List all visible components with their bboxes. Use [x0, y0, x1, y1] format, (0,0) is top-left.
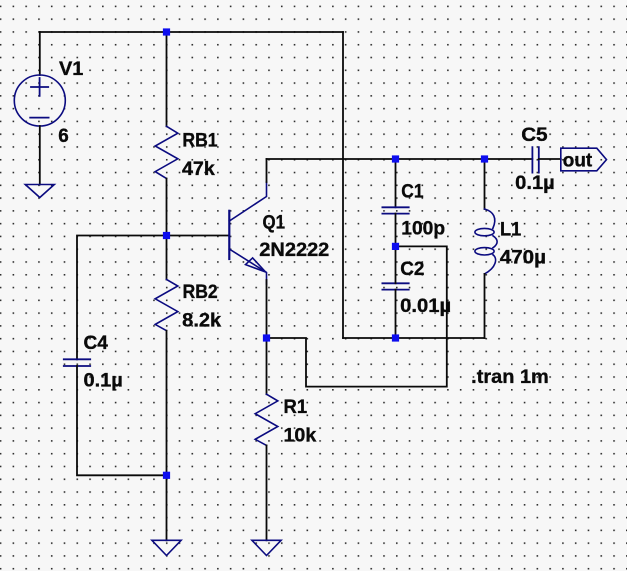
wire base node left to C4	[77, 236, 167, 360]
capacitor C4	[64, 359, 90, 366]
wire feedback from C1-C2 midpoint to emitter	[267, 246, 447, 386]
svg-text:0.01µ: 0.01µ	[400, 296, 451, 317]
junction emitter node	[263, 334, 270, 341]
wire C1 top lead	[395, 159, 397, 207]
svg-text:10k: 10k	[284, 426, 317, 447]
wire C2 bottom lead	[395, 290, 397, 338]
svg-text:C1: C1	[401, 182, 423, 203]
voltage source V1	[14, 75, 65, 126]
svg-text:470µ: 470µ	[500, 248, 546, 269]
resistor R1	[255, 394, 278, 445]
wire emitter node to R1	[266, 338, 268, 394]
inductor L1	[475, 209, 497, 274]
wire tank bottom rail	[343, 337, 485, 339]
svg-text:6: 6	[58, 126, 69, 147]
wire RB2 to ground	[166, 331, 168, 541]
junction collector rail at L1	[481, 155, 488, 162]
ground under RB2	[152, 540, 181, 555]
svg-text:Q1: Q1	[263, 213, 286, 234]
wire RB1 to base node	[166, 179, 168, 236]
wire L1 top lead	[484, 159, 486, 209]
ground under R1	[252, 540, 281, 555]
junction C2 at tank bottom rail	[392, 334, 399, 341]
wire C4 bottom to RB2 bottom node	[77, 366, 167, 475]
node base junction	[163, 232, 170, 239]
wire base node to Q1 base	[167, 235, 230, 237]
svg-text:R1: R1	[284, 397, 308, 418]
transistor Q1	[229, 182, 266, 284]
junction C1-C2 midpoint	[392, 243, 399, 250]
svg-text:C4: C4	[84, 333, 109, 354]
svg-text:C2: C2	[400, 259, 424, 280]
port out	[561, 148, 607, 171]
junction top rail at RB1	[163, 28, 170, 35]
svg-text:RB2: RB2	[183, 282, 218, 303]
resistor RB1	[155, 126, 178, 178]
svg-text:2N2222: 2N2222	[259, 240, 329, 261]
wire collector rail	[267, 158, 533, 160]
capacitor C2	[382, 283, 408, 289]
resistor RB2	[155, 280, 178, 331]
svg-text:out: out	[563, 151, 593, 172]
svg-text:L1: L1	[500, 220, 521, 241]
wire RB1 top lead	[166, 32, 168, 126]
svg-text:.tran 1m: .tran 1m	[471, 367, 549, 388]
svg-text:C5: C5	[521, 125, 548, 146]
wire C2 top lead	[395, 246, 397, 283]
wire V1 top lead	[39, 32, 41, 75]
ground under V1	[25, 185, 54, 198]
capacitor C5	[532, 147, 538, 172]
svg-text:RB1: RB1	[182, 131, 217, 152]
wire top rail V1 to tank	[40, 31, 343, 33]
junction collector rail at C1	[392, 155, 399, 162]
wire R1 to ground	[266, 445, 268, 540]
wire C5 to out port	[539, 158, 561, 160]
wire V1 bottom lead	[39, 126, 41, 185]
svg-text:100p: 100p	[401, 219, 445, 240]
capacitor C1	[382, 207, 408, 213]
junction RB2/C4 bottom node	[163, 472, 170, 479]
svg-text:47k: 47k	[182, 159, 215, 180]
svg-text:V1: V1	[59, 59, 84, 80]
svg-text:0.1µ: 0.1µ	[515, 173, 555, 194]
wire Q1 collector to rail	[266, 159, 268, 182]
wire L1 bottom lead	[484, 274, 486, 338]
wire base node to RB2	[166, 236, 168, 280]
svg-text:8.2k: 8.2k	[182, 311, 221, 332]
wire tank vertical from top rail	[342, 32, 344, 338]
svg-text:0.1µ: 0.1µ	[84, 371, 123, 392]
wire Q1 emitter down	[266, 280, 268, 338]
wire C1 to C2	[395, 214, 397, 247]
